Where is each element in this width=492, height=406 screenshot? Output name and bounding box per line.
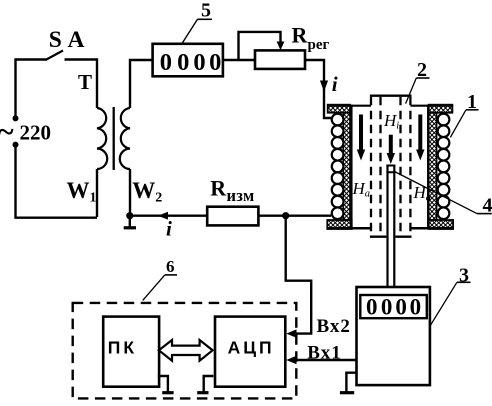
- svg-text:Вх2: Вх2: [317, 316, 351, 337]
- PC box: [103, 317, 159, 387]
- transformer T secondary winding W2: [120, 108, 130, 169]
- wire: junction down to Vx2: [286, 216, 312, 334]
- solenoid frame bottom lines: [327, 227, 371, 230]
- svg-text:5: 5: [201, 0, 211, 22]
- ground at W2: [129, 216, 131, 228]
- svg-text:ПК: ПК: [108, 338, 137, 358]
- node: W2 bottom junction: [126, 212, 133, 219]
- wire: counter to rheostat: [223, 59, 255, 61]
- ground at ADC: [204, 376, 214, 392]
- wire: box3 to ADC Vx1: [296, 359, 357, 361]
- ground at PC: [158, 376, 168, 392]
- transformer core: [113, 107, 115, 170]
- dashed enclosure 6: [73, 303, 297, 399]
- bidirectional bus arrow: [159, 340, 213, 361]
- svg-text:АЦП: АЦП: [228, 338, 275, 358]
- switch SA blade: [46, 51, 64, 61]
- rheostat Rreg box: [255, 50, 305, 69]
- svg-text:0: 0: [410, 294, 422, 319]
- wire: left vertical lower: [16, 145, 98, 218]
- label 4 leader: [395, 172, 477, 214]
- solenoid top-right cap: [429, 105, 453, 113]
- transformer T primary winding W1: [97, 108, 107, 169]
- solenoid right bobbin bar: [429, 113, 437, 220]
- arrow into ADC Vx2: [286, 329, 296, 337]
- wire: W2 junction to Rizm with current arrow: [130, 214, 207, 216]
- solenoid inner frame left vertical: [350, 105, 353, 229]
- wire: left loop top (source to switch): [16, 58, 47, 60]
- svg-text:рег: рег: [308, 37, 330, 53]
- node: source terminal top: [13, 115, 19, 121]
- svg-text:0: 0: [381, 294, 393, 319]
- svg-text:0: 0: [209, 49, 221, 76]
- current arrow i (top): [320, 81, 328, 92]
- node: source terminal bottom: [13, 142, 19, 148]
- wire: transformer primary bottom lead: [96, 169, 98, 217]
- device 3 digits: [366, 294, 421, 319]
- svg-text:S A: S A: [49, 27, 85, 53]
- sample tube 2 top: [370, 95, 412, 97]
- sample tube bottom: [370, 235, 412, 237]
- svg-text:R: R: [292, 23, 309, 48]
- probe rod 4: [386, 165, 395, 288]
- solenoid bottom-right cap: [429, 220, 453, 229]
- field arrow H left: [359, 115, 363, 152]
- resistor Rizm box: [207, 207, 258, 226]
- arrow into ADC Vx1: [286, 356, 296, 364]
- counter 5 box: [153, 44, 223, 77]
- solenoid left bobbin bar: [343, 113, 350, 220]
- svg-text:~: ~: [0, 116, 14, 149]
- svg-text:изм: изм: [227, 186, 255, 205]
- svg-text:R: R: [210, 176, 227, 201]
- svg-text:0: 0: [193, 49, 205, 76]
- solenoid top-left cap: [328, 105, 350, 113]
- wire: solenoid bottom to Rizm junction: [286, 214, 331, 216]
- wire: left vertical upper: [14, 58, 16, 118]
- ground at device 3: [346, 373, 356, 393]
- solenoid bottom-left cap: [327, 220, 351, 229]
- svg-text:i: i: [332, 72, 338, 96]
- ADC box: [215, 317, 285, 387]
- svg-text:0: 0: [366, 294, 378, 319]
- svg-text:Вх1: Вх1: [307, 343, 341, 364]
- wire: rheostat to solenoid with current arrow: [305, 60, 332, 118]
- current arrow i (left): [158, 212, 168, 220]
- counter 5 digits: [160, 49, 222, 76]
- field arrow Hi middle: [389, 135, 393, 155]
- svg-text:0: 0: [177, 49, 189, 76]
- device 3 display: [360, 295, 427, 318]
- solenoid coil 1 left turns: [332, 114, 344, 219]
- node: measuring junction: [282, 212, 289, 219]
- wire: secondary top lead to counter: [130, 60, 153, 108]
- solenoid coil 1 right turns: [438, 114, 450, 219]
- svg-text:4: 4: [483, 194, 492, 216]
- svg-text:T: T: [78, 70, 92, 94]
- rheostat wiper arrow: [277, 42, 285, 51]
- svg-text:i: i: [166, 216, 172, 240]
- svg-text:220: 220: [20, 120, 52, 144]
- solenoid inner frame right vertical: [427, 105, 430, 229]
- device 3 box: [357, 287, 430, 385]
- wire: secondary bottom lead: [129, 169, 131, 215]
- wire: Rizm to junction: [258, 214, 285, 216]
- svg-text:0: 0: [160, 49, 172, 76]
- svg-text:0: 0: [395, 294, 407, 319]
- wire: transformer primary top lead: [96, 58, 98, 108]
- wire: switch to transformer top: [65, 58, 98, 60]
- wire: rheostat bypass: [239, 32, 281, 60]
- field arrow H right: [418, 115, 422, 152]
- solenoid frame top lines: [328, 105, 371, 107]
- sample tube 2 dashed walls: [371, 97, 410, 236]
- svg-text:6: 6: [166, 257, 175, 276]
